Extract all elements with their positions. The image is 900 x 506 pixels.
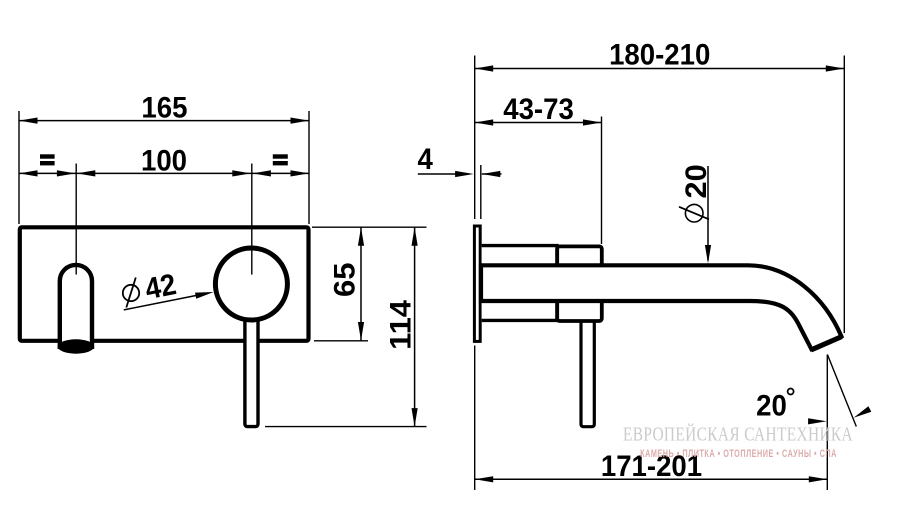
mixer body (side view) [482,246,557,321]
svg-text:ЕВРОПЕЙСКАЯ САНТЕХНИКА: ЕВРОПЕЙСКАЯ САНТЕХНИКА [623,422,853,445]
extension line plate left [18,111,20,224]
dimension 114 [265,426,427,428]
centerline handle [251,164,253,275]
spout (side view) [481,265,841,349]
svg-text:100: 100 [141,144,187,177]
dimension 171-201 [475,478,828,480]
svg-text:43-73: 43-73 [503,93,574,126]
svg-text:4: 4 [418,143,433,176]
handle lever (side view) [581,323,594,427]
faceplate (front view) [20,227,309,340]
dimension 100 line [19,172,309,174]
handle hub block [557,246,602,321]
extension line wall bottom [474,346,476,491]
equals symbol left [40,154,55,158]
extension line plate right [308,111,310,224]
diameter 42 label [123,285,139,301]
dimension 4 [418,173,456,175]
handle lever (front view) [245,318,258,427]
extension line wall right [480,165,482,219]
handle knob circle [215,248,287,320]
svg-text:165: 165 [141,92,187,125]
equals symbol right [273,154,288,158]
angle 20 deg [827,355,856,427]
extension line tip vertical [826,355,828,491]
svg-text:180-210: 180-210 [609,38,710,71]
extension line hub right [601,117,603,245]
extension line wall left [474,56,476,220]
svg-text:КАМЕНЬ • ПЛИТКА • ОТОПЛЕНИЕ •: КАМЕНЬ • ПЛИТКА • ОТОПЛЕНИЕ • САУНЫ • СП… [640,447,837,460]
extension line spout tip [843,56,845,334]
dimension 165 [19,120,309,122]
diameter 20 label [707,166,709,261]
svg-text:20: 20 [756,389,787,422]
svg-text:65: 65 [328,263,361,297]
svg-text:20: 20 [679,164,712,198]
svg-text:42: 42 [142,268,178,307]
spout mouth ellipse [58,339,94,353]
spout end face [811,337,842,350]
dimension 180-210 [475,68,845,70]
centerline spout [75,164,77,275]
dimension 65 [312,226,427,228]
wall plate (side view) [474,226,480,341]
dimension 43-73 [475,122,602,124]
svg-text:114: 114 [384,300,417,350]
spout (front view) [60,265,92,349]
leader arrow to circle [124,294,206,310]
